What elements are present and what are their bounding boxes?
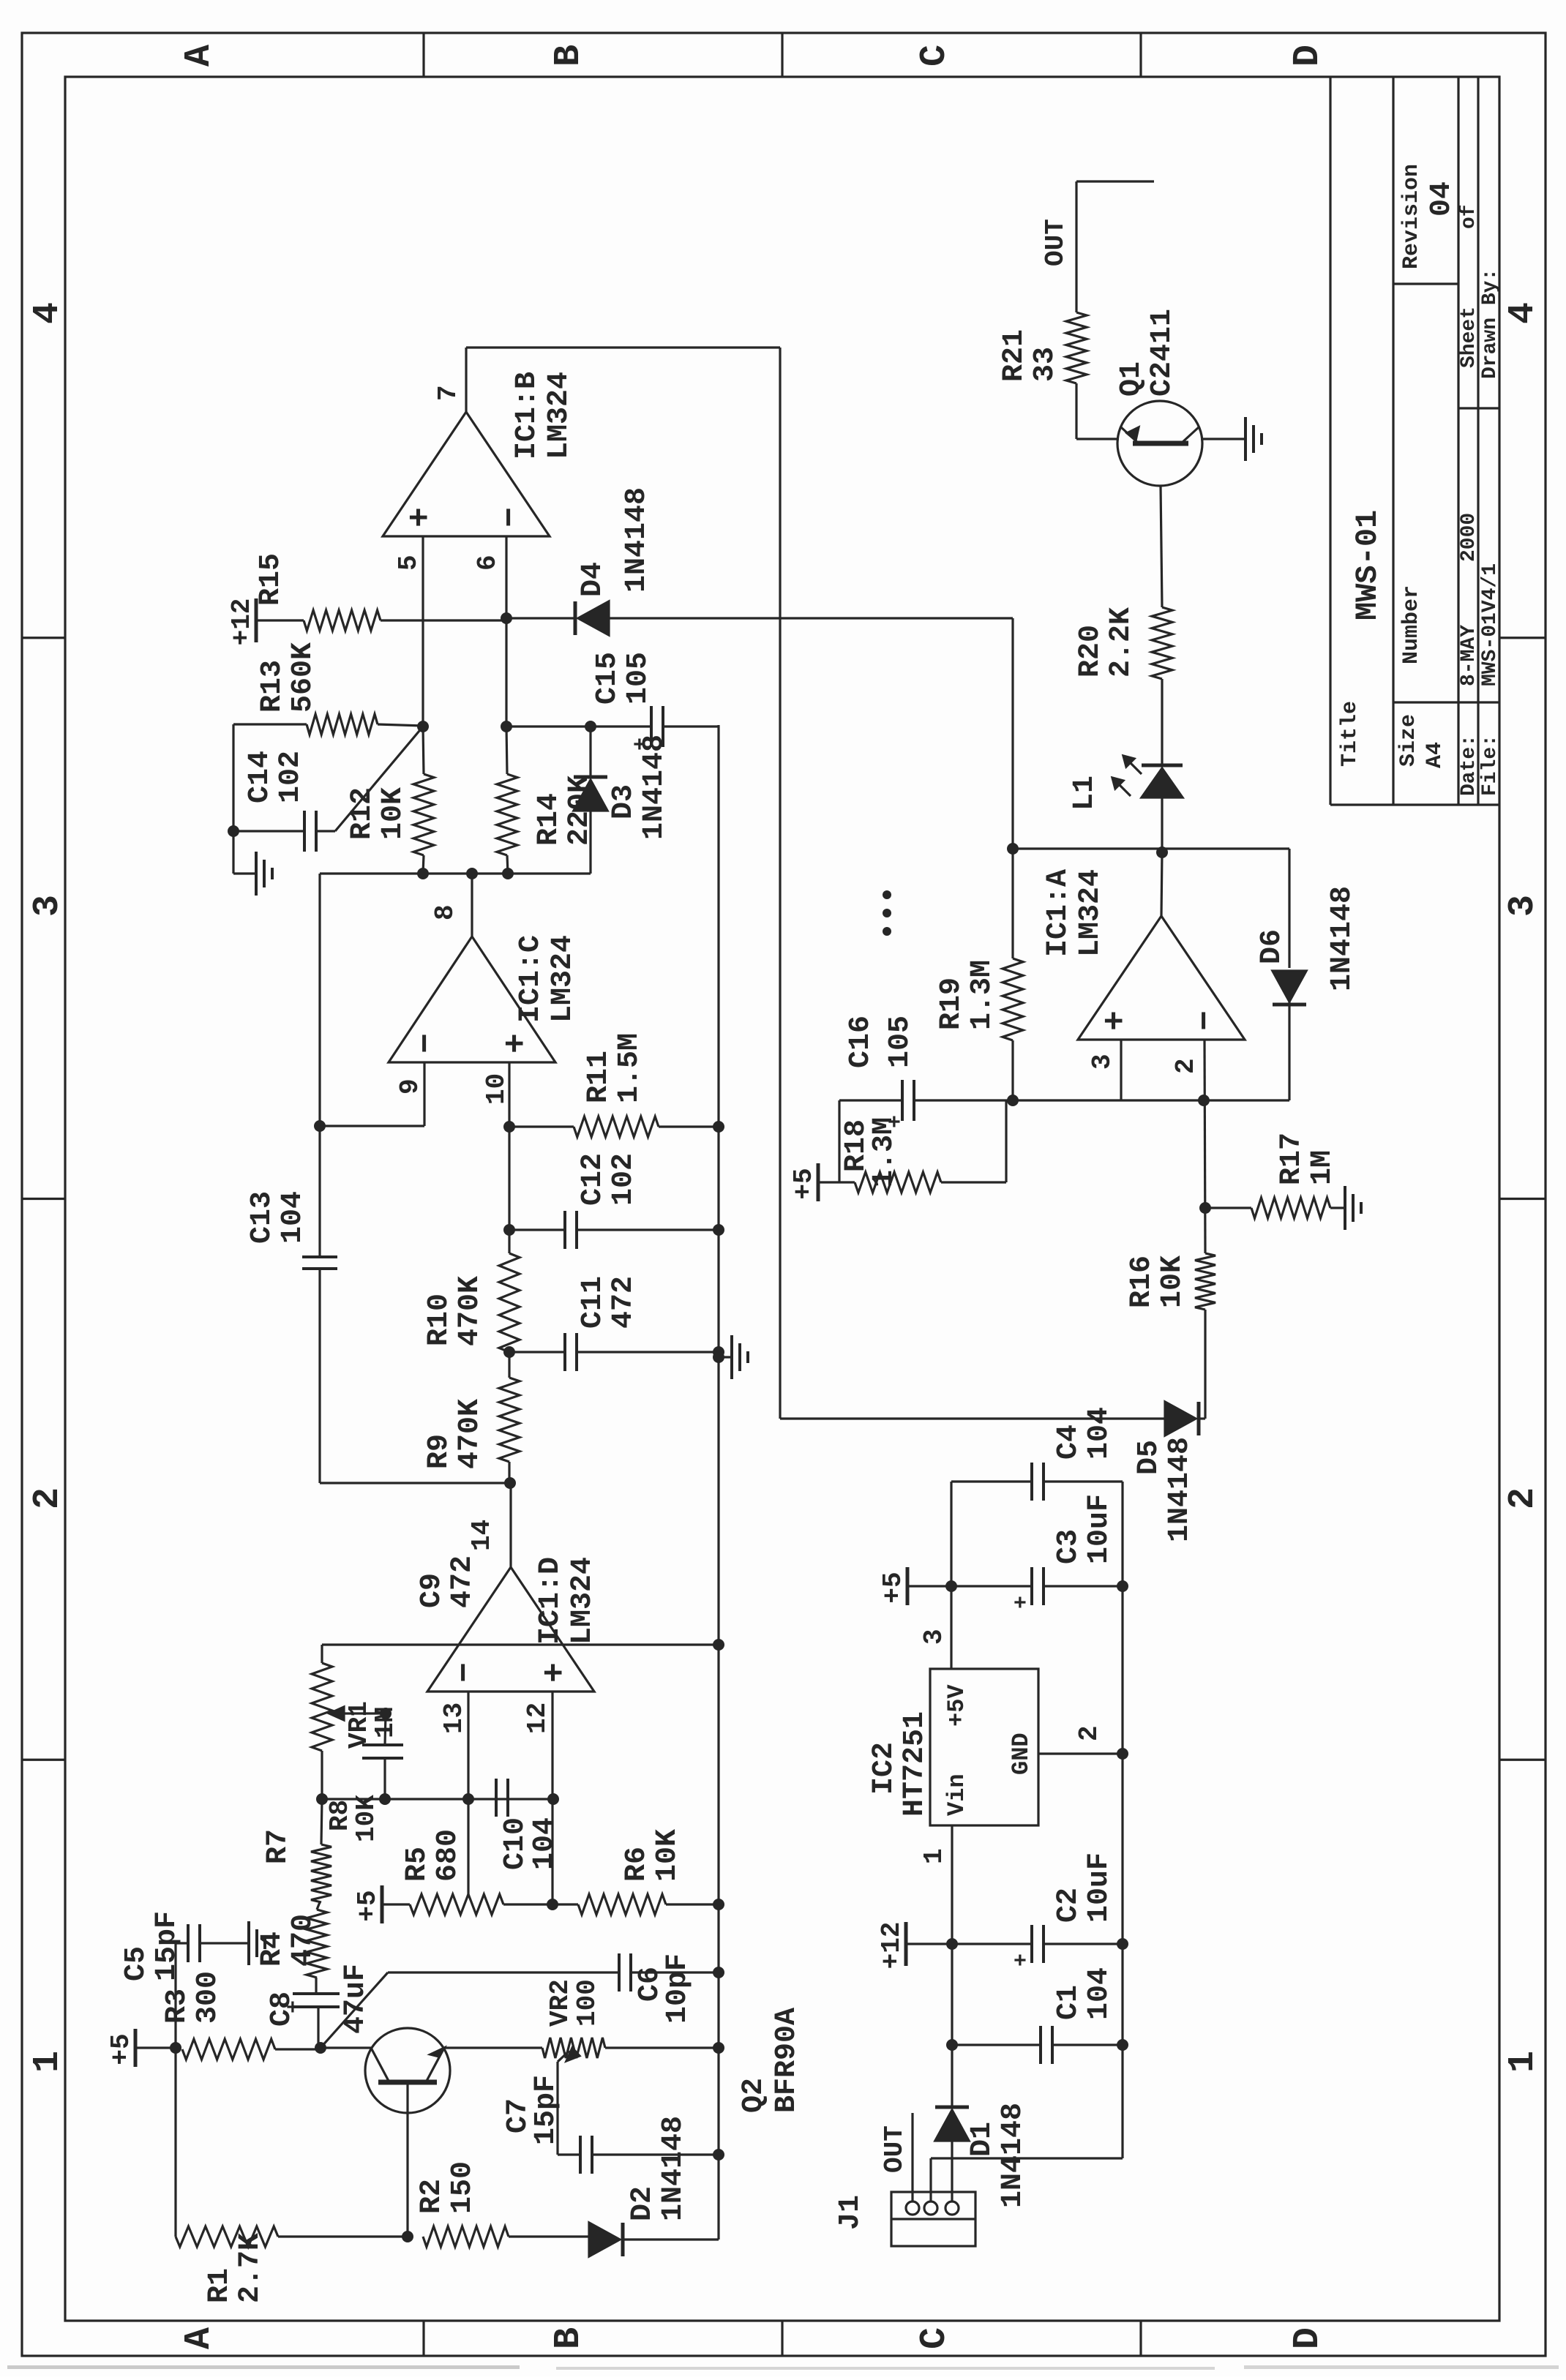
label C13 104	[246, 1191, 310, 1244]
wire filter to pin10	[508, 1062, 510, 1127]
resistor R17 1M	[1205, 1198, 1345, 1218]
label J1	[834, 2195, 867, 2230]
label R1 2.7K	[203, 2233, 267, 2303]
node dot wiper/C9	[380, 1708, 391, 1719]
svg-text:104: 104	[1083, 1967, 1116, 2020]
capacitor C4 104	[951, 1463, 1123, 1501]
ground Q1 emitter	[1245, 417, 1262, 461]
label R15	[255, 553, 288, 606]
svg-text:MWS-01V4/1: MWS-01V4/1	[1479, 563, 1502, 686]
node dot pin6	[501, 721, 512, 732]
label C2 10uF	[1052, 1852, 1116, 1923]
label IC2 HT7251	[868, 1711, 932, 1817]
wire IC1:B out long	[779, 348, 781, 1419]
wire to C2 node	[951, 1944, 953, 2045]
node dot pin2	[1198, 1095, 1210, 1106]
svg-text:470K: 470K	[454, 1276, 487, 1346]
svg-text:680: 680	[432, 1829, 465, 1882]
label C11 472	[577, 1276, 640, 1329]
resistor R20 2.2K	[1152, 486, 1172, 679]
node dot R11/rail	[713, 1121, 724, 1133]
capacitor C12 102	[509, 1211, 719, 1249]
svg-text:2: 2	[1502, 1487, 1544, 1509]
power +5 (R1/R3)	[106, 2029, 176, 2067]
wire pin5	[422, 536, 424, 727]
svg-text:560K: 560K	[287, 642, 320, 713]
svg-text:Drawn By:: Drawn By:	[1479, 269, 1502, 379]
svg-text:C12: C12	[577, 1153, 610, 1206]
svg-text:D2: D2	[626, 2186, 659, 2221]
node dot R1/R2/base	[402, 2231, 413, 2242]
svg-text:C8: C8	[266, 1992, 299, 2027]
node dot C12/rail	[713, 1224, 724, 1236]
svg-text:1N4148: 1N4148	[621, 487, 653, 593]
title block text Number	[1399, 585, 1424, 664]
svg-text:300: 300	[192, 1971, 225, 2024]
wire to VR1	[321, 1751, 323, 1799]
label D1 1N4148	[966, 2103, 1030, 2208]
resistor R15 560K	[304, 610, 506, 631]
resistor R5 680	[410, 1894, 503, 1915]
pin label 2	[1171, 1058, 1201, 1074]
svg-text:R17: R17	[1275, 1133, 1308, 1185]
svg-text:+: +	[629, 737, 654, 751]
label IC1:C	[514, 935, 580, 1023]
label IC1:A	[1042, 869, 1107, 957]
node dot C7/rail	[713, 2149, 724, 2161]
svg-text:D3: D3	[607, 784, 640, 819]
svg-text:R16: R16	[1125, 1255, 1158, 1308]
transistor Q2 BFR90A	[322, 2028, 542, 2113]
resistor R14 220K	[497, 727, 517, 874]
resistor R19 1.3M	[1003, 958, 1023, 1040]
label C7 15pF	[502, 2075, 563, 2145]
title block text MWS-01	[1350, 510, 1385, 620]
svg-text:3: 3	[919, 1629, 949, 1645]
svg-text:−: −	[492, 507, 530, 528]
node dot C3/rail	[1117, 1580, 1128, 1592]
svg-text:1N4148: 1N4148	[997, 2103, 1030, 2208]
label C16 105	[844, 1016, 917, 1068]
pin label 6	[473, 555, 503, 571]
label OUT (Q1)	[1041, 219, 1071, 266]
svg-text:1.3M: 1.3M	[966, 960, 999, 1030]
svg-text:R9: R9	[423, 1434, 456, 1469]
label VR2 100	[545, 1979, 602, 2027]
svg-text:IC1:D: IC1:D	[534, 1557, 567, 1645]
wire pin13	[467, 1692, 469, 1896]
svg-text:R10: R10	[423, 1294, 456, 1346]
resistor R10 470K	[499, 1253, 520, 1352]
svg-text:470K: 470K	[454, 1399, 487, 1469]
node dot C9 left	[379, 1793, 391, 1805]
wire J1 gnd	[931, 2158, 1123, 2201]
svg-text:C11: C11	[577, 1276, 610, 1329]
node dot VR2/rail	[713, 2042, 724, 2054]
capacitor C15 105	[629, 706, 663, 751]
svg-text:BFR90A: BFR90A	[771, 2008, 803, 2113]
svg-text:Sheet: Sheet	[1458, 307, 1480, 368]
wire R16 to pin2	[1205, 1040, 1205, 1253]
wire C15 to rail	[663, 725, 719, 727]
wiper VR2	[558, 2048, 580, 2062]
svg-text:−: −	[408, 1033, 446, 1054]
svg-text:LM324: LM324	[566, 1557, 599, 1645]
wire R9-C11	[508, 1352, 510, 1378]
wire J1 OUT	[911, 2113, 913, 2201]
ground C14	[233, 852, 272, 896]
wire IC2 gnd	[1038, 1752, 1123, 1754]
svg-text:10: 10	[482, 1073, 512, 1105]
svg-text:15pF: 15pF	[151, 1911, 184, 1981]
wire R10-C12	[508, 1230, 510, 1253]
svg-text:472: 472	[607, 1276, 640, 1329]
capacitor C10 104	[496, 1779, 508, 1817]
svg-text:+5: +5	[878, 1572, 908, 1603]
svg-text:33: 33	[1029, 347, 1062, 382]
svg-text:104: 104	[277, 1191, 310, 1244]
node dot R14 left	[502, 868, 514, 879]
label R4 470	[256, 1914, 320, 1967]
node dot R17	[1199, 1202, 1211, 1214]
pin label 3 (IC2)	[919, 1629, 949, 1645]
svg-text:9: 9	[395, 1078, 425, 1095]
svg-text:R5: R5	[401, 1847, 434, 1882]
svg-text:L1: L1	[1068, 776, 1101, 811]
wire pin3	[1120, 1040, 1122, 1100]
node dot +5/R1/R3	[170, 2042, 181, 2054]
svg-text:150: 150	[446, 2161, 479, 2214]
node dot pin8	[466, 868, 478, 879]
pin label 1 (IC2)	[919, 1848, 949, 1864]
capacitor C11 472	[509, 1333, 719, 1371]
svg-text:R3: R3	[161, 1989, 194, 2024]
wire C6 to rail	[631, 1971, 719, 1973]
pin label 5	[394, 555, 424, 571]
capacitor C3 10uF	[951, 1567, 1123, 1609]
svg-text:C16: C16	[844, 1016, 877, 1068]
label OUT (J1)	[880, 2125, 910, 2173]
label Q2 BFR90A	[738, 2008, 803, 2113]
svg-text:R15: R15	[255, 553, 288, 606]
svg-text:7: 7	[433, 385, 463, 401]
node dot R12 left	[417, 868, 429, 879]
svg-text:10pF: 10pF	[662, 1953, 694, 2024]
resistor R21 33	[1066, 181, 1087, 439]
capacitor C5 15pF	[188, 1924, 200, 1962]
wire IC2 +5 out	[950, 1586, 952, 1669]
svg-text:+: +	[536, 1662, 574, 1683]
op-amp IC1:D LM324	[427, 1567, 594, 1692]
wire D5 to R16	[1204, 1310, 1206, 1419]
label D4 1N4148	[577, 487, 653, 597]
capacitor C13 104	[302, 1257, 337, 1269]
node dot R19/D6 column	[1007, 843, 1019, 855]
label D3 1N4148	[607, 735, 671, 840]
svg-text:LM324: LM324	[547, 935, 580, 1023]
svg-text:8-MAY: 8-MAY	[1458, 625, 1480, 686]
svg-text:Vin: Vin	[943, 1773, 970, 1816]
svg-text:D4: D4	[577, 562, 610, 597]
OUT terminal Q1	[1076, 180, 1154, 182]
svg-text:A: A	[179, 45, 220, 67]
node dot IC2gnd/rail	[1117, 1748, 1128, 1760]
svg-text:1.3M: 1.3M	[868, 1117, 901, 1187]
resistor R9 470K	[499, 1378, 520, 1483]
power +12 (supply)	[877, 1922, 952, 1970]
diode D5 1N4148	[1165, 1402, 1205, 1435]
wire pin1 output	[1161, 852, 1162, 916]
svg-text:12: 12	[522, 1703, 552, 1734]
wire C14 ground line	[232, 724, 234, 874]
label C14 102	[244, 751, 307, 803]
node dot +5 out	[945, 1580, 957, 1592]
pin label 7	[433, 385, 463, 401]
title block text Date	[1458, 513, 1480, 796]
title block text Title	[1338, 701, 1363, 767]
svg-text:2.7K: 2.7K	[234, 2233, 267, 2303]
resistor R2	[423, 2226, 589, 2247]
svg-text:D5: D5	[1133, 1440, 1166, 1475]
diode D2 1N4148	[589, 2223, 719, 2256]
scan edge artifact	[7, 2365, 520, 2369]
svg-text:4: 4	[1502, 302, 1544, 324]
svg-text:2000: 2000	[1458, 513, 1480, 562]
diode D3 1N4148	[574, 727, 607, 874]
node dot R3/C8/collector	[315, 2042, 326, 2054]
label R8 10K	[325, 1795, 381, 1842]
svg-text:2.2K: 2.2K	[1105, 607, 1138, 677]
svg-text:+5V: +5V	[943, 1684, 970, 1727]
diode D6 1N4148	[1273, 849, 1306, 1005]
node dot C11	[503, 1346, 515, 1358]
svg-text:R11: R11	[582, 1051, 615, 1103]
svg-text:LM324: LM324	[1074, 869, 1107, 957]
node dot column/ground rail	[713, 1639, 724, 1651]
resistor R18 1.3M	[855, 1100, 1006, 1193]
pin label 14	[467, 1520, 497, 1551]
svg-text:VR2: VR2	[545, 1979, 575, 2027]
svg-text:+12: +12	[877, 1922, 907, 1970]
svg-text:R20: R20	[1074, 625, 1107, 677]
svg-text:C9: C9	[416, 1573, 449, 1608]
node dot output/L1	[1156, 846, 1168, 858]
op-amp IC1:A LM324	[1078, 916, 1245, 1040]
wire pin12	[551, 1692, 553, 1904]
capacitor C6 10pF	[619, 1953, 631, 1992]
wire +5 to C4	[950, 1482, 952, 1586]
node dot pin13	[462, 1793, 474, 1805]
power +12	[227, 598, 304, 646]
label R12 10K	[346, 787, 410, 840]
label L1	[1068, 776, 1101, 811]
node dot C14	[228, 825, 239, 837]
ground R17	[1345, 1186, 1361, 1230]
svg-text:472: 472	[446, 1555, 479, 1608]
wire diagonal to C6	[321, 1972, 388, 2048]
svg-text:IC1:B: IC1:B	[511, 372, 544, 459]
wire C6 column	[388, 1971, 619, 1973]
wire pin8 output	[320, 874, 591, 936]
label R5 680	[401, 1829, 465, 1882]
svg-text:J1: J1	[834, 2195, 867, 2230]
wire to IC2 Vin	[951, 1825, 953, 1944]
svg-text:+: +	[1097, 1010, 1135, 1031]
svg-text:2: 2	[1074, 1725, 1104, 1741]
ground C5	[200, 1921, 265, 1965]
svg-text:A: A	[179, 2327, 220, 2349]
wire pin6	[505, 536, 507, 727]
svg-text:1N4148: 1N4148	[657, 2116, 690, 2221]
svg-text:10uF: 10uF	[1083, 1494, 1116, 1564]
resistor R16 10K	[1195, 1253, 1215, 1310]
svg-text:+5: +5	[789, 1168, 819, 1199]
svg-text:1: 1	[27, 2051, 69, 2073]
svg-text:04: 04	[1425, 181, 1458, 217]
label R11 1.5M	[582, 1033, 646, 1103]
svg-text:R8: R8	[325, 1800, 355, 1831]
svg-text:+: +	[498, 1033, 536, 1054]
title block text File	[1479, 563, 1502, 796]
wire J1 +12 in	[951, 2141, 953, 2201]
label IC1:B	[511, 372, 576, 459]
svg-text:102: 102	[274, 751, 307, 803]
label R10 470K	[423, 1276, 487, 1346]
connector J1	[891, 2192, 975, 2246]
svg-text:Size: Size	[1396, 714, 1421, 767]
svg-text:100: 100	[572, 1979, 602, 2027]
svg-text:3: 3	[1087, 1054, 1117, 1070]
pin label 10	[482, 1073, 512, 1105]
label R21 33	[998, 329, 1062, 382]
svg-text:10K: 10K	[1156, 1255, 1189, 1308]
svg-text:R7: R7	[262, 1829, 295, 1864]
op-amp IC1:C LM324	[389, 936, 555, 1062]
capacitor C1 104	[952, 2026, 1123, 2064]
wire R18 top tee	[838, 1100, 840, 1182]
title block text Drawn By	[1479, 269, 1502, 379]
resistor R3	[182, 2039, 321, 2060]
capacitor C14 102	[233, 811, 316, 852]
label C1 104	[1052, 1967, 1116, 2020]
note dots	[883, 890, 891, 936]
label R13 560K	[256, 642, 320, 713]
wire pin14 output	[509, 1483, 512, 1567]
node dot pin12	[547, 1793, 559, 1805]
svg-text:Date:: Date:	[1458, 735, 1480, 796]
wire R19 to node	[1011, 1040, 1014, 1100]
svg-text:Q2: Q2	[738, 2078, 771, 2113]
svg-text:+: +	[1010, 1596, 1035, 1609]
svg-text:3: 3	[1502, 895, 1544, 917]
svg-text:LM324: LM324	[543, 372, 576, 459]
svg-text:D: D	[1287, 2327, 1329, 2349]
svg-text:3: 3	[27, 895, 69, 917]
potentiometer VR1 1M	[312, 1663, 332, 1751]
title block text Sheet of	[1458, 204, 1480, 368]
svg-text:OUT: OUT	[880, 2125, 910, 2173]
wire C15 column	[506, 725, 651, 727]
svg-text:C: C	[914, 45, 956, 67]
svg-text:C3: C3	[1052, 1529, 1085, 1564]
label C8 47uF	[266, 1964, 372, 2034]
svg-text:Number: Number	[1399, 585, 1424, 664]
capacitor C9 472	[362, 1713, 403, 1799]
power +5 (R5)	[353, 1885, 410, 1923]
svg-text:1: 1	[919, 1848, 949, 1864]
svg-text:B: B	[548, 45, 590, 67]
LED arrows	[1112, 756, 1142, 796]
svg-text:Title: Title	[1338, 701, 1363, 767]
label R3 300	[161, 1971, 225, 2024]
label C15 105	[591, 652, 655, 705]
svg-text:B: B	[548, 2327, 590, 2349]
svg-text:+: +	[1010, 1953, 1035, 1967]
wire +5 node to R1	[174, 2048, 176, 2237]
label R6 10K	[621, 1829, 684, 1882]
svg-text:HT7251: HT7251	[899, 1711, 932, 1817]
wire base Q2	[406, 2111, 408, 2237]
label D2 1N4148	[626, 2116, 690, 2221]
resistor R8 (R7 network)	[311, 1799, 331, 1902]
node dot R8/feedback column	[316, 1793, 328, 1805]
node dot R6/rail	[713, 1899, 724, 1910]
svg-text:D1: D1	[966, 2122, 999, 2157]
label R7	[262, 1829, 295, 1864]
svg-text:1N4148: 1N4148	[1164, 1437, 1196, 1542]
power +5 (supply)	[878, 1567, 951, 1605]
pin label 13	[439, 1703, 469, 1734]
svg-text:C13: C13	[246, 1191, 279, 1244]
label R20 2.2K	[1074, 607, 1138, 677]
svg-text:6: 6	[473, 555, 503, 571]
svg-text:+: +	[402, 507, 440, 528]
svg-text:C1: C1	[1052, 1985, 1085, 2020]
svg-text:IC1:A: IC1:A	[1042, 869, 1075, 957]
node dot C1/rail	[1117, 2039, 1128, 2051]
svg-text:10K: 10K	[651, 1829, 684, 1882]
wire D6 bottom	[1288, 1002, 1290, 1100]
wire D6 column	[1013, 847, 1289, 849]
svg-text:470: 470	[287, 1914, 320, 1967]
ground rail	[717, 725, 719, 2240]
svg-text:R14: R14	[533, 793, 566, 846]
label R18 1.3M	[840, 1117, 901, 1187]
node dot C2/+12	[946, 1938, 958, 1950]
wire VR1 to x1000 column	[322, 1645, 719, 1663]
node dot R11 column	[503, 1121, 515, 1133]
svg-text:1M: 1M	[1306, 1150, 1339, 1185]
svg-text:1.5M: 1.5M	[613, 1033, 646, 1103]
svg-text:4: 4	[27, 302, 69, 324]
wire D4 to R19 line	[1011, 617, 1014, 619]
svg-text:13: 13	[439, 1703, 469, 1734]
title block frame	[1330, 77, 1499, 805]
resistor R1	[176, 2226, 408, 2247]
title block text Revision	[1399, 164, 1458, 269]
svg-text:C2: C2	[1052, 1888, 1085, 1923]
node dot C12	[503, 1224, 515, 1236]
svg-text:10uF: 10uF	[1083, 1852, 1116, 1923]
regulator IC2 HT7251	[930, 1669, 1038, 1825]
wire C5 stub	[176, 1943, 188, 2048]
svg-text:2: 2	[1171, 1058, 1201, 1074]
resistor R13 560K	[233, 714, 423, 735]
svg-text:D: D	[1287, 45, 1329, 67]
svg-text:Revision: Revision	[1399, 164, 1424, 269]
svg-text:10K: 10K	[377, 787, 410, 840]
svg-text:105: 105	[884, 1016, 917, 1068]
